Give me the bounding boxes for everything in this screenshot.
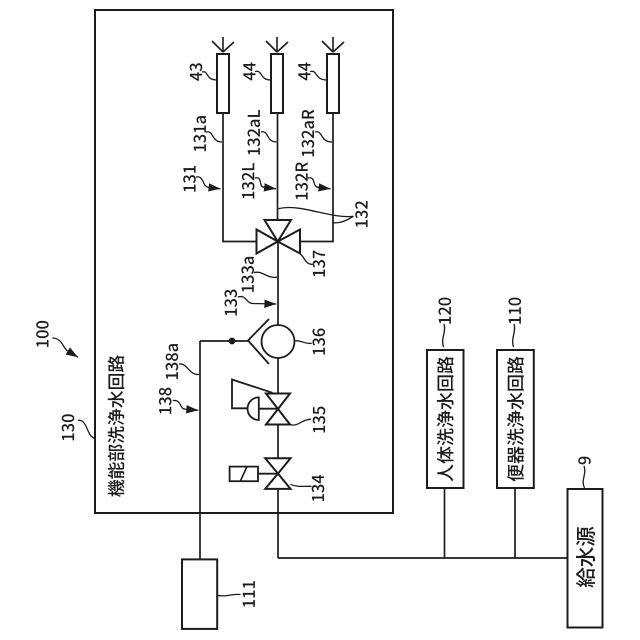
label 137 [300,250,325,276]
tank 111 [182,559,217,629]
label 134 [291,475,325,501]
label 100 with arrow [36,321,78,357]
solenoid valve 134 [230,458,291,489]
label 44 (left) [243,62,271,80]
box 110 (toilet-bowl wash water circuit) [497,350,534,488]
wire 132L (middle pipe) [277,113,279,220]
label 133a [241,257,277,292]
three-way valve 137 [257,220,301,254]
label 43 [190,63,217,81]
nozzle 44 right [322,37,344,113]
wire 131 (left pipe) [223,113,257,242]
label 120 [438,298,451,347]
outer box 130 (functional-unit wash water circuit) [95,10,393,513]
wire 132R (right pipe) [300,113,333,242]
label 133 with arrow [224,290,276,316]
pump 136 [248,319,295,364]
label 132L with arrow [242,163,276,198]
label 132aL [247,110,276,155]
wire 134 outlet down [277,489,279,558]
label 138a [166,344,200,379]
box 120 (human-body wash water circuit) [427,350,464,488]
label 131 with arrow [183,166,220,192]
label 110 [508,298,521,347]
label 機能部洗浄水回路 [108,355,125,497]
label 136 [295,328,325,354]
stub from box 120 [444,488,446,558]
wire pump suction [200,340,248,342]
stub from box 110 [514,488,516,558]
junction dot [229,338,236,345]
label 138 with arrow [159,388,198,414]
label 132 with forked leader [278,201,367,227]
wire between valves [277,425,279,459]
nozzle 43 [212,37,234,113]
label 9 [578,457,591,488]
label 132aR [302,110,332,157]
valve 135 (regulator) [232,380,290,425]
wire 133a (valve to pump) [277,242,279,326]
label 111 [217,581,255,607]
label 135 [290,407,326,433]
nozzle 44 left [266,37,288,113]
wire supply line [278,557,568,559]
wire pump to valve 135 [277,358,279,394]
label 44 (right) [298,62,327,80]
label 132R with arrow [295,162,330,199]
wire 138 (branch line down to tank) [199,341,201,559]
label 131a [193,116,222,151]
box 9 (water supply source 給水源) [568,489,603,628]
label 130 [62,414,95,440]
